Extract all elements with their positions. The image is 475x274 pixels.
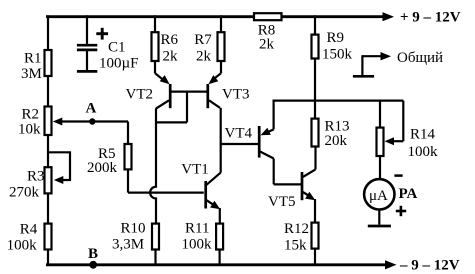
svg-text:R7: R7 [194,32,212,48]
svg-text:VT3: VT3 [222,87,250,103]
svg-text:B: B [88,246,98,262]
svg-text:C1: C1 [108,40,126,56]
svg-text:2k: 2k [259,37,275,53]
svg-text:R11: R11 [185,220,209,236]
svg-text:R9: R9 [327,30,345,46]
svg-text:100µF: 100µF [99,55,139,71]
svg-text:15k: 15k [284,238,307,254]
svg-text:270k: 270k [9,185,40,201]
svg-text:R1: R1 [24,51,42,67]
svg-text:μA: μA [369,188,388,204]
svg-text:3M: 3M [21,66,42,82]
svg-text:100k: 100k [408,144,439,160]
svg-text:R3: R3 [27,169,45,185]
svg-text:2k: 2k [163,49,179,65]
svg-text:VT5: VT5 [268,194,296,210]
svg-text:R12: R12 [284,221,309,237]
svg-text:Общий: Общий [397,50,443,66]
svg-text:R2: R2 [22,107,40,123]
svg-text:200k: 200k [87,160,118,176]
svg-text:2k: 2k [196,49,212,65]
svg-text:VT1: VT1 [181,162,209,178]
svg-text:R10: R10 [121,220,146,236]
svg-text:R4: R4 [20,221,38,237]
svg-text:100k: 100k [7,237,37,253]
svg-text:VT2: VT2 [126,87,154,103]
svg-text:VT4: VT4 [225,126,253,142]
svg-text:R14: R14 [410,127,436,143]
svg-text:R6: R6 [161,32,179,48]
svg-text:150k: 150k [322,47,353,63]
svg-text:20k: 20k [325,133,348,149]
svg-text:A: A [86,101,97,117]
svg-text:3,3M: 3,3M [112,237,144,253]
svg-text:100k: 100k [182,236,213,252]
svg-text:+ 9 – 12V: + 9 – 12V [400,9,461,25]
svg-text:PA: PA [399,186,418,202]
svg-text:– 9 – 12V: – 9 – 12V [399,257,460,273]
svg-text:10k: 10k [18,121,41,137]
